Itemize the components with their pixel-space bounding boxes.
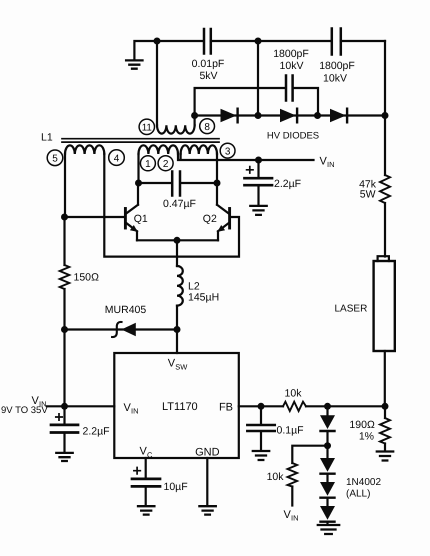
svg-text:MUR405: MUR405 xyxy=(105,304,147,316)
capacitor 0.1uF xyxy=(247,406,303,450)
diode string D4 xyxy=(320,498,335,524)
node: VIN input junction xyxy=(61,403,68,410)
node: diode chain junction B xyxy=(314,112,321,119)
transistor Q1 xyxy=(125,183,147,240)
svg-text:IN: IN xyxy=(327,160,335,169)
node: diode chain to right rail xyxy=(382,112,389,119)
svg-text:10µF: 10µF xyxy=(164,481,188,493)
laser tube xyxy=(335,256,395,351)
svg-text:Q2: Q2 xyxy=(203,213,217,225)
HV diode D3 xyxy=(330,109,347,123)
resistor 190 ohm 1% xyxy=(349,406,390,450)
resistor 47k 5W xyxy=(359,175,390,203)
ground (0.1uF) xyxy=(253,451,269,460)
svg-text:10k: 10k xyxy=(285,388,303,400)
wire: VIN input to LT1170 xyxy=(47,405,114,407)
svg-text:2.2µF: 2.2µF xyxy=(274,178,301,190)
pin 2 xyxy=(158,156,173,171)
svg-text:GND: GND xyxy=(195,447,220,459)
label: VIN input xyxy=(1,395,48,416)
pin 4 xyxy=(109,150,125,166)
svg-text:1800pF: 1800pF xyxy=(319,60,355,72)
svg-text:10kV: 10kV xyxy=(323,73,347,85)
pin 5 xyxy=(47,150,63,166)
wire: 10k pull-down tap xyxy=(292,446,327,463)
op-amp/regulator U1 LT1170 xyxy=(114,353,239,459)
transformer L1 winding (right half to pin 3) xyxy=(181,145,217,154)
diode string D2 xyxy=(320,446,335,474)
svg-text:8: 8 xyxy=(204,122,210,133)
svg-text:5: 5 xyxy=(52,154,58,165)
svg-text:2.2µF: 2.2µF xyxy=(83,426,110,438)
wire: pin 3 down to Q2 collector node xyxy=(216,154,218,183)
wire: laser cathode down xyxy=(384,351,386,406)
HV diode D2 xyxy=(280,109,297,123)
capacitor 10uF (VC pin) xyxy=(132,458,188,505)
node: Q2 collector junction xyxy=(214,180,221,187)
capacitor 0.01pF 5kV xyxy=(192,29,225,82)
wire: right rail upper xyxy=(384,41,386,175)
node: center tap / bypass cap junction xyxy=(255,157,262,164)
wire: tap from top rail down to diode chain xyxy=(257,41,259,116)
HV diode D1 xyxy=(221,109,238,123)
svg-text:L1: L1 xyxy=(41,132,53,144)
svg-text:LASER: LASER xyxy=(335,304,368,315)
node: top rail / ground junction xyxy=(154,38,161,45)
node: diode string / 10k tap xyxy=(324,442,331,449)
wire: doubler branch down to diode chain xyxy=(293,88,318,116)
diode string 1N4002 (ALL) xyxy=(320,406,381,499)
node: MUR405 anode / VIN rail xyxy=(61,326,68,333)
svg-text:1800pF: 1800pF xyxy=(273,48,309,60)
wire: 47k to laser anode xyxy=(384,203,386,257)
ground (190 ohm) xyxy=(377,452,393,461)
node: emitters / L2 junction xyxy=(174,237,181,244)
capacitor 2.2uF (input) xyxy=(51,406,110,452)
capacitor 0.47uF (collector-collector) xyxy=(139,172,218,211)
ground (center tap bypass) xyxy=(250,206,266,215)
pin 3 xyxy=(220,143,235,158)
svg-text:10kV: 10kV xyxy=(280,60,304,72)
label: VIN (pull-down) xyxy=(284,509,299,523)
svg-text:SW: SW xyxy=(175,362,188,371)
transistor Q2 xyxy=(203,183,230,240)
ground (input cap) xyxy=(56,453,72,461)
node: top rail to HV tap xyxy=(255,38,262,45)
pin 8 xyxy=(200,119,215,134)
wire: Q2 base to pin 4 (cross-coupling) xyxy=(104,154,239,257)
node: diode chain junction A xyxy=(255,112,262,119)
svg-text:9V TO 35V: 9V TO 35V xyxy=(1,405,48,416)
svg-text:145µH: 145µH xyxy=(188,291,219,303)
capacitor 2.2uF (center tap bypass) xyxy=(245,160,302,205)
resistor 150 ohm xyxy=(60,217,99,330)
capacitor 1800pF 10kV (top right) xyxy=(319,29,355,85)
svg-text:0.01pF: 0.01pF xyxy=(192,58,225,70)
inductor L2 145uH xyxy=(177,240,219,329)
svg-text:IN: IN xyxy=(131,407,139,416)
pin 1 xyxy=(140,156,155,171)
transformer L1 top winding (pins 11-8) xyxy=(157,41,195,134)
node: laser cathode / 190 ohm junction xyxy=(382,403,389,410)
node: Q1 base / 150ohm rail junction xyxy=(61,214,68,221)
svg-text:5W: 5W xyxy=(360,189,376,201)
svg-text:4: 4 xyxy=(114,153,120,164)
ground (top-left) xyxy=(126,41,157,69)
wire: top rail right segment xyxy=(341,40,385,42)
svg-text:0.47µF: 0.47µF xyxy=(163,198,196,210)
label VIN (center tap) xyxy=(320,156,335,170)
transformer L1 winding 1-2 (left half) xyxy=(139,145,178,154)
wire: doubler branch (pin 8 up and right) xyxy=(195,88,286,116)
wire: pin 5 down the left rail xyxy=(64,154,66,217)
wire: HV diode chain rail xyxy=(195,114,385,116)
svg-text:(ALL): (ALL) xyxy=(346,489,370,500)
transformer L1 winding 5-4 xyxy=(65,145,104,154)
svg-text:2: 2 xyxy=(163,159,169,170)
node: FB / 0.1uF junction xyxy=(258,403,265,410)
transformer L1 core xyxy=(41,132,219,144)
svg-text:10k: 10k xyxy=(267,471,285,483)
node: transformer pin 8 junction xyxy=(191,112,198,119)
resistor 10k (to VIN) xyxy=(267,463,298,506)
node: MUR405 cathode / VSW junction xyxy=(174,326,181,333)
svg-text:HV DIODES: HV DIODES xyxy=(267,131,319,142)
svg-text:1N4002: 1N4002 xyxy=(346,477,381,488)
svg-text:0.1µF: 0.1µF xyxy=(277,425,304,437)
svg-text:IN: IN xyxy=(291,514,299,523)
wire: pin 1 down to Q1 collector node xyxy=(137,154,139,183)
ground (GND pin) xyxy=(199,506,215,514)
svg-text:1%: 1% xyxy=(359,431,374,443)
wire: emitters xyxy=(137,239,218,241)
svg-text:1: 1 xyxy=(145,159,151,170)
svg-text:5kV: 5kV xyxy=(199,70,217,82)
capacitor 1800pF 10kV (doubler) xyxy=(273,48,309,101)
diode MUR405 xyxy=(65,304,178,337)
wire: GND pin xyxy=(206,458,208,505)
wire: divider to laser cathode xyxy=(306,405,385,407)
svg-text:11: 11 xyxy=(142,122,152,133)
wire: center tap to VIN xyxy=(178,154,314,160)
svg-text:LT1170: LT1170 xyxy=(162,401,198,413)
wire: FB pin to divider xyxy=(239,405,283,407)
ground (diode string) xyxy=(318,525,339,534)
wire: left rail to VIN input xyxy=(63,330,65,407)
wire: top rail middle segment xyxy=(211,40,331,42)
svg-text:190Ω: 190Ω xyxy=(349,419,375,431)
svg-text:150Ω: 150Ω xyxy=(74,272,100,284)
wire: VSW pin xyxy=(176,330,178,354)
pin 11 xyxy=(139,119,154,134)
wire: top rail left segment xyxy=(157,40,203,42)
svg-text:Q1: Q1 xyxy=(134,213,148,225)
node: Q1 collector junction xyxy=(135,180,142,187)
diode string D3 xyxy=(320,474,335,498)
resistor 10k (FB) xyxy=(283,388,306,412)
svg-text:FB: FB xyxy=(219,402,233,414)
wire: Q1 base xyxy=(65,216,126,218)
ground (VC cap) xyxy=(138,506,154,514)
svg-text:3: 3 xyxy=(225,147,231,158)
svg-text:C: C xyxy=(147,450,153,459)
node: divider / diode string junction xyxy=(324,403,331,410)
